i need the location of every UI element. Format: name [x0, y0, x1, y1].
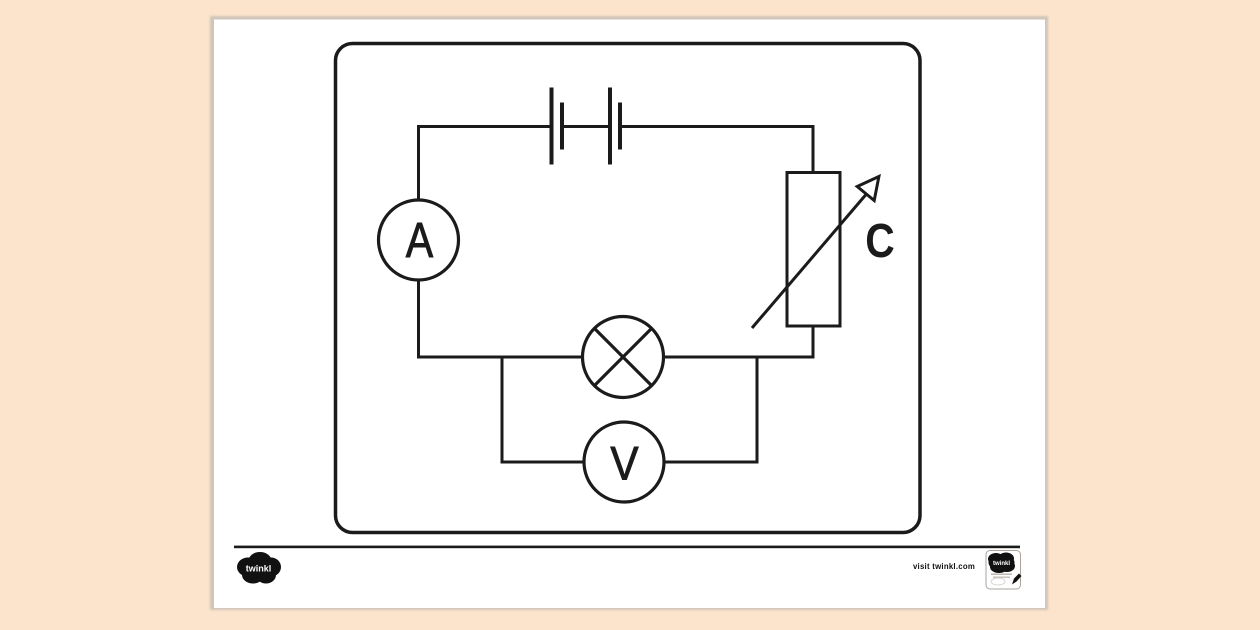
svg-text:C: C	[865, 215, 894, 268]
twinkl logo	[237, 552, 281, 584]
battery cell 1	[552, 88, 563, 165]
wire	[812, 125, 815, 174]
svg-text:visit twinkl.com: visit twinkl.com	[913, 562, 975, 571]
wire	[663, 461, 759, 464]
wire	[501, 461, 586, 464]
wire	[620, 125, 815, 128]
battery cell 2	[610, 88, 620, 165]
wire	[417, 128, 420, 201]
wire	[417, 356, 583, 359]
wire	[812, 325, 815, 359]
svg-text:twinkl: twinkl	[993, 561, 1010, 567]
wire	[562, 125, 610, 128]
svg-text:V: V	[610, 439, 638, 491]
voltmeter V	[584, 422, 664, 502]
wire	[417, 125, 552, 128]
ammeter A	[379, 200, 459, 280]
wire	[417, 279, 420, 359]
wire	[501, 356, 504, 464]
lamp L1	[583, 317, 664, 398]
variable resistor C	[752, 173, 879, 329]
svg-text:A: A	[406, 213, 434, 268]
wire	[663, 356, 815, 359]
svg-text:twinkl: twinkl	[246, 564, 272, 574]
wire	[756, 356, 759, 463]
twinkl badge	[986, 551, 1022, 590]
